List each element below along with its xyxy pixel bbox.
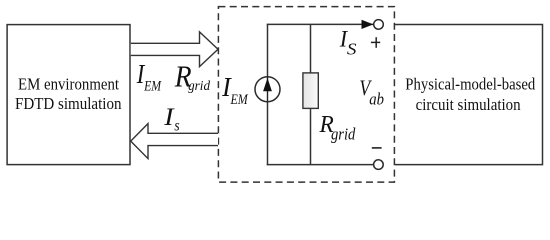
svg-text:s: s [174, 118, 180, 135]
svg-text:EM environment: EM environment [18, 75, 119, 94]
block: Physical-model-based circuit simulation [395, 25, 543, 165]
block arrow right (I_EM, R_grid data flow) [131, 32, 218, 67]
svg-text:S: S [347, 39, 357, 58]
dashed interface box [218, 7, 394, 183]
svg-text:FDTD simulation: FDTD simulation [15, 94, 122, 113]
block: EM environment FDTD simulation [7, 25, 130, 165]
wire: middle branch through resistor [310, 24, 312, 164]
terminal node b (-) [374, 160, 384, 170]
label I_EM (between blocks) [136, 60, 162, 93]
label R_grid (inside dashed box) [319, 112, 356, 144]
label I_s (between blocks) [163, 102, 180, 135]
minus sign [372, 147, 382, 149]
current arrow I_S on top rail [362, 20, 374, 29]
terminal node a (+) [374, 20, 384, 30]
label V_ab [359, 76, 384, 109]
plus sign [371, 37, 380, 48]
label I_EM (inside dashed box) [221, 71, 248, 107]
block arrow left (I_s data flow) [131, 124, 218, 159]
wire: top rail from left branch to + terminal [267, 23, 374, 25]
wire: bottom rail from left branch to - terminal [267, 164, 374, 166]
label R_grid (between blocks) [174, 60, 211, 94]
wire: left branch of circuit loop [267, 24, 269, 166]
svg-text:Physical-model-based: Physical-model-based [405, 75, 535, 94]
svg-text:grid: grid [188, 78, 210, 93]
svg-text:grid: grid [331, 126, 356, 144]
label I_S [339, 26, 357, 58]
svg-text:I: I [163, 102, 174, 131]
svg-text:ab: ab [369, 91, 384, 109]
svg-text:EM: EM [143, 77, 162, 93]
current source I_EM (circle with upward arrow) [255, 77, 280, 102]
svg-text:circuit simulation: circuit simulation [416, 95, 521, 114]
svg-text:EM: EM [230, 91, 249, 107]
